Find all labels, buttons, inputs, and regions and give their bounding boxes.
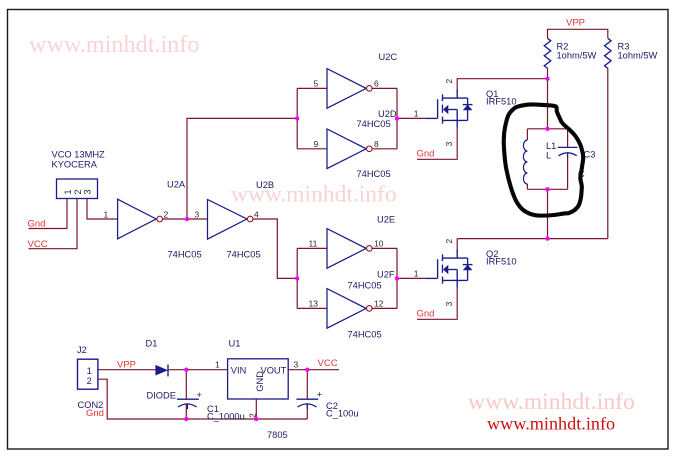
- inverter U2B: [208, 200, 247, 240]
- svg-text:74HC05: 74HC05: [357, 119, 391, 129]
- svg-text:2: 2: [164, 209, 169, 219]
- svg-text:1: 1: [63, 189, 73, 194]
- wire VPP rail: [548, 29, 608, 38]
- transistor Q1: [426, 89, 473, 128]
- svg-text:5: 5: [314, 79, 319, 89]
- VCO X1 box: [57, 179, 98, 199]
- junction node tank top: [545, 127, 549, 131]
- svg-text:DIODE: DIODE: [147, 391, 176, 401]
- svg-text:IRF510: IRF510: [486, 257, 517, 267]
- svg-text:12: 12: [374, 299, 384, 309]
- svg-text:C3: C3: [584, 149, 596, 159]
- wire node A up to input bus: [187, 118, 297, 219]
- junction node tank bottom: [545, 187, 549, 191]
- connector J2: [78, 359, 98, 389]
- inverter U2E: [327, 229, 366, 269]
- svg-text:1: 1: [414, 108, 419, 118]
- junction node Q2 drain rail: [545, 236, 549, 240]
- wire output bus U2C U2D: [396, 88, 398, 148]
- wire R2 bottom to tank: [547, 68, 549, 129]
- svg-text:U1: U1: [229, 339, 241, 349]
- svg-text:U2F: U2F: [377, 269, 395, 279]
- junction node output bus upper: [395, 116, 399, 120]
- wire tank top rail: [527, 128, 567, 130]
- wire L1 bottom leg: [526, 184, 528, 189]
- svg-text:74HC05: 74HC05: [348, 281, 382, 291]
- resistor R3: [605, 38, 612, 68]
- wire C3 bottom leg: [567, 157, 569, 190]
- junction node output bus lower: [395, 276, 399, 280]
- svg-text:3: 3: [444, 302, 454, 307]
- U2C bubble: [367, 86, 373, 92]
- wire to Q2 gate: [397, 277, 426, 279]
- svg-text:6: 6: [374, 79, 379, 89]
- diode D1: [155, 365, 168, 376]
- wire C3 top leg: [567, 129, 569, 148]
- svg-text:Gnd: Gnd: [417, 308, 435, 319]
- svg-text:VIN: VIN: [231, 366, 247, 376]
- svg-text:9: 9: [314, 139, 319, 149]
- wire Q2 source to Gnd: [417, 288, 457, 320]
- svg-text:C_1000u: C_1000u: [207, 411, 245, 421]
- svg-text:Gnd: Gnd: [86, 408, 104, 419]
- wire stub to U2C input: [297, 87, 327, 89]
- svg-text:Gnd: Gnd: [28, 218, 46, 229]
- svg-text:U2B: U2B: [256, 180, 274, 190]
- U2D bubble: [367, 146, 373, 152]
- wire VCC to VCO pin2: [29, 199, 78, 249]
- svg-text:U2D: U2D: [378, 109, 397, 119]
- wire input bus U2C U2D: [296, 88, 298, 148]
- Q1 body diode triangle: [463, 105, 473, 111]
- capacitor C3: [558, 147, 578, 157]
- resistor R2: [544, 38, 551, 68]
- U2F bubble: [367, 306, 373, 312]
- svg-text:L: L: [546, 151, 551, 161]
- transistor Q2: [426, 249, 473, 288]
- svg-text:3: 3: [83, 189, 93, 194]
- inductor L1: [523, 140, 527, 184]
- wire Q2 drain rail: [456, 239, 458, 249]
- wire D1 to C1 junction to U1: [168, 369, 228, 371]
- svg-text:2: 2: [444, 79, 454, 84]
- svg-text:1ohm/5W: 1ohm/5W: [557, 51, 597, 61]
- inverter U2A: [118, 199, 157, 239]
- svg-text:+: +: [317, 390, 322, 400]
- svg-text:VPP: VPP: [566, 18, 585, 29]
- junction node Q1 drain R2: [545, 77, 549, 81]
- wire C1 lower leg: [185, 404, 187, 420]
- svg-text:www.minhdt.info: www.minhdt.info: [468, 389, 635, 415]
- svg-text:VCO 13MHZ: VCO 13MHZ: [52, 150, 106, 160]
- svg-text:U2C: U2C: [379, 52, 398, 62]
- wire Q1 drain to R2: [457, 79, 547, 89]
- svg-text:3: 3: [195, 209, 200, 219]
- junction node U2A out: [185, 217, 189, 221]
- wire tank bottom rail: [527, 188, 567, 190]
- svg-text:4: 4: [254, 209, 259, 219]
- regulator U1 box: [228, 359, 289, 399]
- wire U2F output: [372, 307, 397, 309]
- junction node input bus upper: [295, 116, 299, 120]
- Q2 arrow: [443, 265, 448, 275]
- svg-text:KYOCERA: KYOCERA: [52, 160, 98, 170]
- wire U2A output to U2B input: [163, 218, 208, 220]
- wire Gnd to VCO pin1: [29, 199, 68, 229]
- svg-text:L1: L1: [546, 141, 556, 151]
- svg-text:74HC05: 74HC05: [168, 249, 202, 259]
- hand-drawn highlight blob around tank: [504, 104, 583, 215]
- svg-text:D1: D1: [146, 339, 158, 349]
- junction node input bus lower: [295, 276, 299, 280]
- svg-text:1ohm/5W: 1ohm/5W: [618, 51, 658, 61]
- wire U2E output: [372, 247, 397, 249]
- svg-text:U2A: U2A: [167, 180, 186, 190]
- svg-text:VPP: VPP: [117, 359, 136, 370]
- junction node D1 C1: [184, 368, 188, 372]
- Q2 body diode triangle: [463, 265, 473, 271]
- wire Q1 source to Gnd: [417, 128, 457, 160]
- wire U2C output: [372, 87, 397, 89]
- wire stub to U2E input: [297, 247, 327, 249]
- wire input bus U2E U2F: [296, 248, 298, 308]
- svg-text:1: 1: [104, 209, 109, 219]
- wire stub to U2F input: [297, 307, 327, 309]
- svg-text:+: +: [197, 390, 202, 400]
- junction node U1 gnd rail: [254, 417, 258, 421]
- svg-text:2: 2: [87, 376, 92, 386]
- svg-text:2: 2: [444, 239, 454, 244]
- svg-text:GND: GND: [255, 371, 265, 392]
- svg-text:3: 3: [444, 142, 454, 147]
- svg-text:U2E: U2E: [377, 215, 395, 225]
- svg-text:J2: J2: [77, 345, 87, 355]
- svg-text:www.minhdt.info: www.minhdt.info: [29, 31, 199, 58]
- wire C2 lower leg: [306, 404, 308, 420]
- inverter U2F: [327, 289, 366, 329]
- svg-text:10: 10: [374, 239, 384, 249]
- wire U2B output down to lower bus: [253, 219, 297, 278]
- wire VCO pin3 to U2A input: [87, 199, 118, 220]
- wire U2D output: [372, 148, 397, 150]
- svg-text:www.minhdt.info: www.minhdt.info: [487, 414, 615, 434]
- svg-text:1: 1: [87, 366, 92, 376]
- capacitor C2: [296, 399, 318, 409]
- wire U1 gnd pin: [255, 399, 257, 419]
- wire J2 pin2 to gnd rail: [98, 379, 307, 419]
- wire output bus U2E U2F: [396, 248, 398, 308]
- Q1 arrow: [443, 105, 448, 115]
- svg-text:2: 2: [73, 189, 83, 194]
- capacitor C1: [177, 399, 199, 409]
- inverter U2D: [327, 129, 366, 169]
- wire C1 upper leg: [185, 370, 187, 400]
- U2E bubble: [367, 246, 373, 252]
- svg-text:8: 8: [374, 139, 379, 149]
- inverter U2C: [327, 69, 366, 109]
- svg-text:3: 3: [294, 360, 299, 370]
- svg-text:74HC05: 74HC05: [348, 330, 382, 340]
- svg-text:VCC: VCC: [28, 239, 48, 250]
- wire J2 pin1 to D1: [98, 369, 155, 371]
- wire tank to Q2 rail: [547, 189, 549, 238]
- wire Q2 drain to R3 rail: [457, 238, 608, 240]
- svg-text:IRF510: IRF510: [486, 97, 517, 107]
- svg-text:1: 1: [414, 268, 419, 278]
- wire C2 upper leg: [306, 370, 308, 400]
- junction node C1 gnd rail: [184, 417, 188, 421]
- svg-text:13: 13: [309, 299, 319, 309]
- wire R3 bottom: [607, 68, 609, 238]
- U2A bubble: [157, 216, 163, 222]
- wire L1 top leg: [526, 129, 528, 140]
- svg-text:11: 11: [309, 239, 318, 249]
- svg-text:C_100u: C_100u: [326, 409, 359, 419]
- U2B bubble: [247, 216, 253, 222]
- svg-text:Gnd: Gnd: [417, 148, 435, 159]
- svg-text:74HC05: 74HC05: [227, 249, 261, 259]
- wire U1 output to VCC: [288, 369, 339, 371]
- wire stub to U2D input: [297, 148, 327, 150]
- svg-text:VCC: VCC: [318, 358, 338, 369]
- svg-text:74HC05: 74HC05: [357, 169, 391, 179]
- svg-text:7805: 7805: [267, 430, 288, 440]
- wire to Q1 gate: [397, 117, 426, 119]
- svg-text:1: 1: [215, 360, 220, 370]
- junction node VCC C2: [305, 368, 309, 372]
